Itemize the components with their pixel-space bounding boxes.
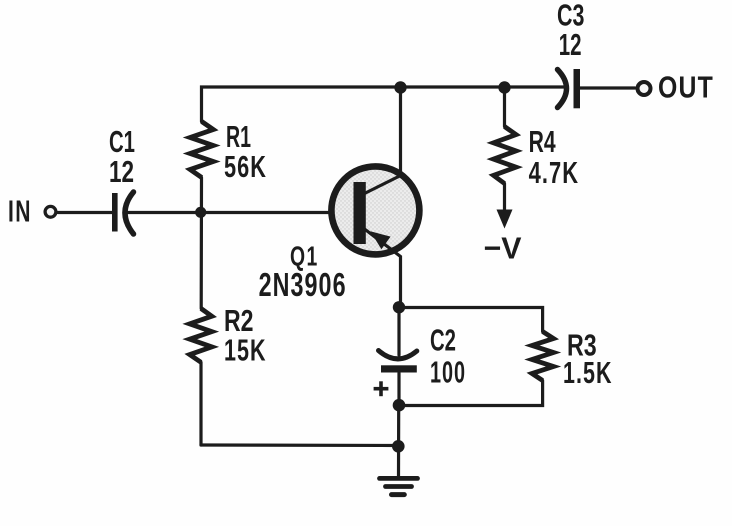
svg-text:1.5K: 1.5K (563, 355, 613, 390)
svg-text:15K: 15K (224, 333, 267, 368)
svg-text:2N3906: 2N3906 (259, 266, 347, 303)
resistor R2 (190, 309, 212, 363)
wire top rail to R4 (503, 88, 506, 127)
node junction ground-rail (392, 440, 405, 453)
svg-text:12: 12 (559, 27, 582, 62)
wire collector to top rail (365, 87, 401, 194)
resistor R4 (494, 127, 517, 184)
svg-text:IN: IN (8, 194, 32, 229)
resistor R3 (532, 332, 554, 381)
arrow -V supply (497, 210, 513, 229)
wire emitter node to C2 (397, 308, 400, 356)
wire C1 to base node (125, 211, 202, 214)
transistor Q1 base bar (354, 182, 366, 244)
wire C3 to OUT (580, 86, 635, 89)
resistor R1 (190, 122, 213, 178)
wire emitter down (365, 229, 401, 308)
C2 plus sign (374, 381, 389, 396)
capacitor C1 (112, 192, 134, 234)
svg-text:−V: −V (484, 231, 522, 266)
wire R4 to -V arrow (503, 184, 506, 214)
wire lower node to ground (397, 406, 400, 478)
capacitor C3 (558, 69, 581, 108)
wire R2 bottom to bottom rail (199, 362, 202, 445)
node junction top-R4 (498, 81, 510, 93)
wire C2 bottom to lower node (397, 373, 400, 405)
svg-text:OUT: OUT (658, 70, 714, 105)
node junction emitter-C2 (393, 301, 405, 313)
transistor Q1 body (331, 166, 419, 254)
svg-text:C2: C2 (430, 323, 456, 358)
svg-text:56K: 56K (224, 149, 267, 184)
node junction base (195, 207, 206, 218)
wire R1 bottom to R2 top (200, 178, 204, 309)
wire emitter node to R3 top (399, 308, 543, 332)
ground (380, 478, 418, 494)
node junction C2-bottom (393, 399, 406, 412)
terminal IN (45, 206, 56, 217)
terminal OUT (638, 82, 651, 95)
svg-text:12: 12 (109, 154, 134, 189)
svg-text:4.7K: 4.7K (529, 155, 580, 190)
capacitor C2 electrolytic (379, 351, 417, 373)
transistor Q1 emitter arrow (370, 231, 390, 249)
svg-text:100: 100 (430, 355, 466, 390)
wire IN terminal to C1 (58, 211, 113, 214)
wire top rail (202, 87, 567, 122)
wire base node to Q1 base (202, 211, 334, 214)
wire R3 bottom to lower node (399, 381, 543, 406)
node junction top-collector (394, 81, 406, 93)
wire bottom rail (201, 443, 398, 447)
